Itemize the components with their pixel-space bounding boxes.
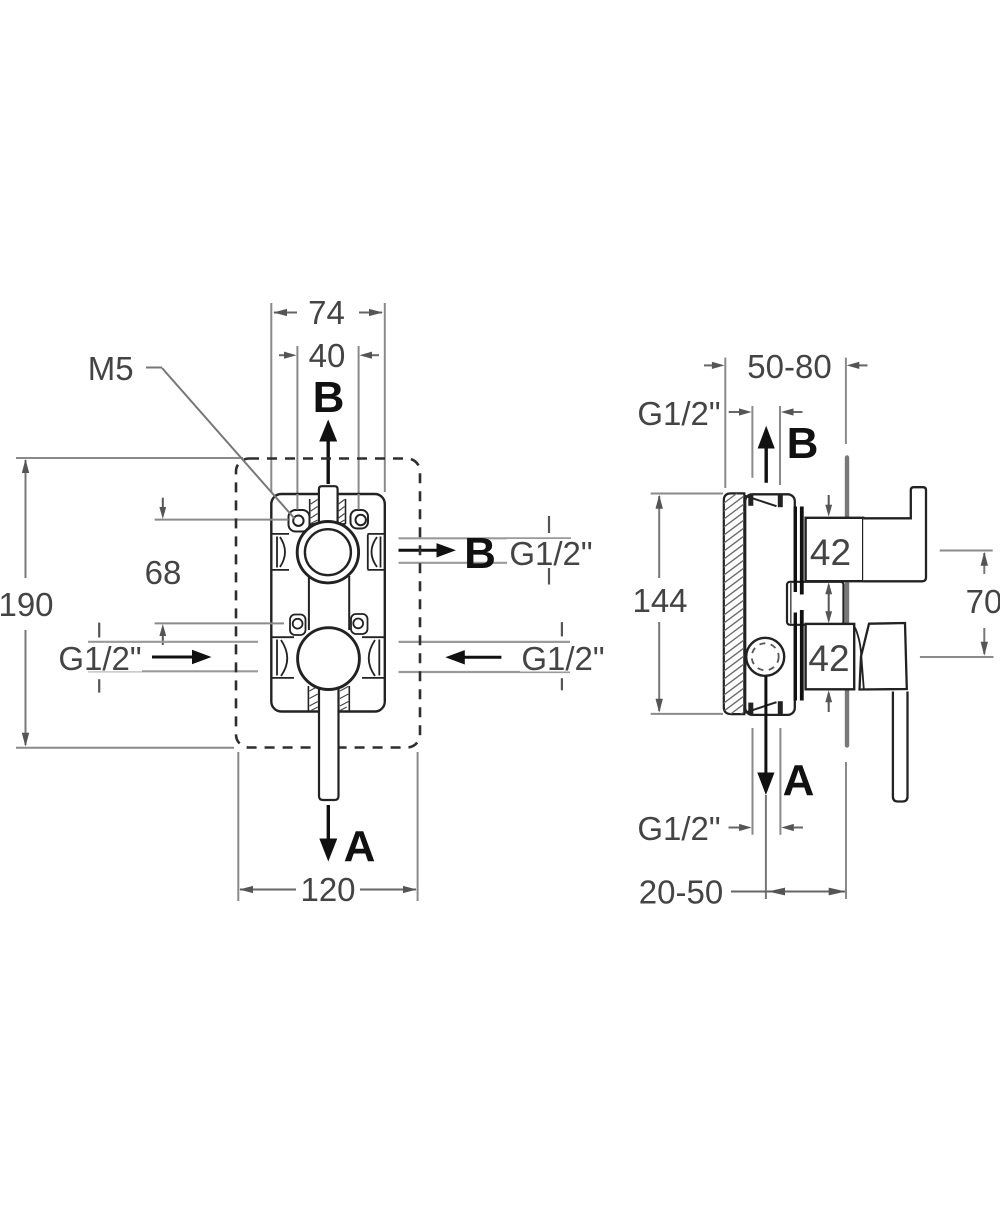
- valve body: [271, 494, 385, 712]
- finished wall thick line upper segment: [845, 458, 849, 518]
- dimension 70 line lower: [983, 628, 985, 654]
- M5 leader dash: [146, 367, 162, 369]
- dimension 50-80 line left: [704, 364, 716, 366]
- dimension 190 arrow up: [22, 459, 29, 473]
- dimension 42 upper arrows: [828, 495, 830, 505]
- left port G1/2 ticks: [98, 623, 100, 638]
- flow arrow A down: [327, 805, 330, 839]
- dimension 190 line lower segment: [25, 630, 27, 745]
- diverter knob: [863, 487, 926, 581]
- dimension 74 arrow right: [369, 309, 383, 316]
- dimension 40 arrow left: [284, 352, 297, 359]
- G1/2 top dim right arrow: [788, 411, 803, 413]
- dimension 144 line upper: [658, 496, 660, 578]
- lower mounting hole left: [293, 619, 303, 629]
- stem exit guide right: [348, 686, 350, 711]
- finished wall extension thin line: [845, 762, 847, 899]
- bottom mounting bracket: [744, 701, 780, 714]
- supply elbow circle: [746, 638, 784, 676]
- dimension 40 left extension line: [296, 346, 298, 508]
- label G1/2 lower right: [520, 645, 606, 672]
- dimension 50-80 left extension line: [724, 358, 726, 488]
- upper outlet port B pipe lines: [399, 537, 572, 539]
- dimension 40 line right outside: [368, 354, 379, 356]
- lower mounting pad right: [351, 614, 368, 634]
- flow arrow A down (side view): [764, 676, 767, 775]
- svg-text:B: B: [464, 529, 496, 578]
- dimension 70 line upper: [983, 553, 985, 574]
- lower boss right: [362, 637, 385, 678]
- upper cartridge outer circle: [297, 522, 358, 583]
- screw pad top-right: [351, 510, 369, 529]
- dimension 120 left extension line: [237, 752, 239, 901]
- stem collar lines: [310, 523, 319, 525]
- lower cartridge circle: [298, 628, 360, 690]
- flow arrow B right: [399, 549, 441, 552]
- top stem tab: [319, 486, 338, 524]
- supply elbow circle inner dashed: [752, 643, 779, 670]
- LEFT-VIEW: [0, 294, 606, 908]
- lower cartridge trim block 42: [806, 624, 855, 689]
- collar hatch right: [339, 500, 345, 524]
- flow arrow left inlet: [152, 656, 196, 659]
- collar hatch left: [311, 500, 318, 524]
- dimension 144 bottom extension line: [651, 713, 723, 715]
- lever handle base: [860, 623, 907, 690]
- dashed cover plate: [236, 459, 420, 748]
- svg-text:42: 42: [808, 638, 849, 679]
- top mounting bracket: [744, 494, 780, 507]
- dimension 50-80 line right: [855, 364, 868, 366]
- G1/2 top dim left arrow: [729, 411, 744, 413]
- screw top-right: [356, 515, 366, 525]
- dimension 68 lower arrow: [162, 631, 164, 645]
- centre step block: [787, 582, 844, 625]
- A line continuation: [765, 795, 767, 899]
- upper flange bars: [794, 507, 797, 593]
- dimension 190 top extension line: [16, 457, 243, 459]
- flow arrow B up (side view): [765, 447, 768, 483]
- upper cartridge inner circle: [305, 529, 351, 575]
- lower flange bars: [794, 613, 797, 701]
- upper boss left: [271, 534, 289, 570]
- wall hatching: [712, 463, 756, 736]
- svg-text:144: 144: [632, 582, 687, 619]
- lever handle base inner line: [855, 628, 864, 690]
- svg-text:G1/2": G1/2": [58, 640, 141, 677]
- svg-text:190: 190: [0, 586, 54, 623]
- finished wall thick line lower segment: [845, 690, 849, 746]
- dimension 74 right extension line: [384, 303, 386, 492]
- dimension 20-50 right arrow: [829, 888, 846, 896]
- flow arrow B up: [327, 440, 330, 484]
- 40 extension stubs over body: [296, 494, 298, 510]
- dimension 120 line right: [360, 889, 416, 891]
- dimension 144 top extension line: [651, 493, 723, 495]
- svg-text:50-80: 50-80: [747, 348, 831, 385]
- G1/2 top extension lines: [751, 406, 753, 478]
- dimension 70 top extension line: [940, 550, 993, 552]
- stem exit guide left: [307, 686, 309, 711]
- upper cartridge trim block 42: [806, 518, 864, 581]
- dimension 40 right extension line: [358, 346, 360, 508]
- lower right port G1/2 ticks: [561, 622, 563, 636]
- dimension 20-50 left arrow: [768, 888, 785, 896]
- dimension 74 line left: [274, 312, 297, 314]
- svg-text:42: 42: [810, 532, 851, 573]
- label G1/2 left inlet: [57, 644, 142, 672]
- valve body (side view): [745, 494, 795, 715]
- svg-text:A: A: [783, 756, 815, 805]
- svg-text:40: 40: [309, 337, 346, 374]
- dimension 40 line left outside: [279, 354, 288, 356]
- G1/2 bottom dim left arrow: [729, 827, 745, 829]
- lower mounting pad left: [290, 615, 306, 636]
- dimension 190 line upper segment: [25, 460, 27, 578]
- dimension 42 lower bottom arrow: [828, 693, 830, 712]
- svg-text:G1/2": G1/2": [637, 810, 720, 847]
- screw pad top-left (M5): [289, 510, 310, 532]
- dimension 50-80 right extension line: [845, 358, 847, 444]
- screw top-left: [293, 516, 303, 526]
- wall section (hatched): [724, 493, 745, 714]
- 68 extension stubs over body: [270, 519, 289, 521]
- dimension 74 arrow left: [273, 309, 287, 316]
- dimension 144 line lower: [658, 622, 660, 711]
- lower boss left: [271, 637, 294, 678]
- finished wall thick line middle segment: [845, 583, 849, 624]
- dimension 40 arrow right: [359, 352, 372, 359]
- lower right inlet port pipe lines: [399, 641, 571, 643]
- dimension 120 line left: [240, 889, 296, 891]
- G1/2 bottom extension lines: [752, 728, 754, 835]
- label G1/2 upper right: [507, 539, 595, 567]
- RIGHT-VIEW: [632, 348, 1000, 911]
- lever handle bar: [893, 692, 908, 802]
- dimension 190 bottom extension line: [16, 747, 234, 749]
- svg-text:G1/2": G1/2": [509, 535, 592, 572]
- svg-text:70: 70: [966, 583, 1000, 620]
- dimension 74 left extension line: [270, 303, 272, 492]
- svg-text:M5: M5: [88, 350, 134, 387]
- lever stem: [319, 676, 339, 800]
- M5 leader line: [162, 368, 295, 519]
- dimension 120 right extension line: [417, 752, 419, 901]
- svg-text:G1/2": G1/2": [637, 395, 720, 432]
- dimension 68 upper extension line: [155, 519, 288, 521]
- dimension 68 lower extension line: [155, 622, 282, 624]
- dimension 190 arrow down: [22, 733, 29, 747]
- upper right port G1/2 ticks: [548, 516, 550, 533]
- svg-text:120: 120: [300, 871, 355, 908]
- upper boss right: [368, 534, 385, 570]
- svg-text:B: B: [313, 373, 345, 422]
- cartridge neck lines: [308, 576, 310, 630]
- svg-text:68: 68: [145, 554, 182, 591]
- svg-text:G1/2": G1/2": [521, 640, 604, 677]
- svg-text:B: B: [787, 419, 819, 468]
- G1/2 bottom dim right arrow: [788, 827, 803, 829]
- dimension 74 line right: [359, 312, 382, 314]
- dimension 70 bottom extension line: [920, 656, 994, 658]
- dimension 20-50 line: [731, 891, 845, 893]
- flow arrow right inlet: [460, 656, 501, 659]
- svg-text:A: A: [344, 822, 376, 871]
- dimension 68 upper arrow: [162, 498, 164, 512]
- left inlet port pipe lines: [88, 641, 258, 643]
- lower mounting hole right: [353, 619, 363, 629]
- svg-text:74: 74: [308, 294, 345, 331]
- svg-text:20-50: 20-50: [639, 874, 723, 911]
